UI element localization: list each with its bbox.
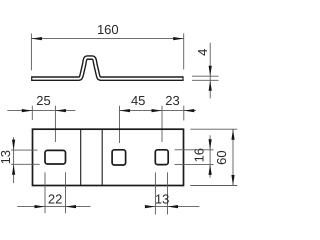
dim 4 dimension line: [209, 43, 211, 99]
dim 22 arrow left: [35, 205, 46, 208]
slot 1 (left oblong): [45, 150, 66, 164]
dim 23 extension line at plate right: [183, 106, 185, 121]
dim 60 dimension line: [232, 129, 234, 185]
plate bend line left: [80, 129, 82, 185]
dim 25 extension line at slot1 center: [54, 106, 56, 142]
plate outline: [33, 129, 184, 185]
svg-text:22: 22: [48, 192, 62, 207]
dim 22 arrow right: [66, 205, 77, 208]
dim 60 arrow upper: [231, 129, 234, 140]
dim 25 dimension line: [7, 110, 75, 112]
svg-text:23: 23: [165, 93, 179, 108]
dim 45/23 dimension line: [120, 110, 197, 112]
svg-text:160: 160: [97, 22, 119, 37]
dim 22 dimension line: [17, 206, 90, 208]
dim 13 left extension line lower: [11, 163, 40, 165]
dim 160 dimension line: [31, 38, 183, 40]
dim 160 extension line left: [30, 34, 32, 71]
plate bend line right: [101, 129, 103, 185]
dim 22 extension line right: [65, 172, 67, 213]
dim 60 arrow lower: [231, 175, 234, 186]
svg-text:60: 60: [214, 150, 229, 164]
dim 4 extension line top: [192, 75, 219, 77]
dim 160 arrow right: [173, 37, 184, 40]
dim 60 extension line upper: [190, 128, 237, 130]
dim 60 extension line lower: [190, 185, 237, 187]
dim 45 extension line at slot2 center: [119, 106, 121, 143]
dim 16 extension line upper: [175, 149, 214, 151]
svg-text:4: 4: [195, 49, 210, 56]
slot 3 (right): [155, 150, 168, 165]
dim 160 extension line right: [183, 33, 185, 69]
dim 25 arrow left: [22, 109, 33, 112]
dim 25 arrow right: [55, 109, 66, 112]
dim 16 arrow upper: [209, 139, 212, 150]
dim 13 bottom extension line right: [167, 172, 169, 214]
dim 13 bottom extension line left: [154, 172, 156, 214]
dim 16 extension line lower: [175, 163, 214, 165]
dim 13 bottom arrow right: [168, 205, 179, 208]
profile strip inner white core: [32, 58, 182, 79]
dim 13 left extension line upper: [11, 149, 38, 151]
dim 13 left arrow lower: [12, 164, 15, 175]
svg-text:13: 13: [155, 191, 169, 206]
dim 25 extension line at plate left: [31, 106, 33, 120]
dim 13 bottom dimension line: [146, 206, 200, 208]
svg-text:13: 13: [0, 150, 13, 164]
slot 2 (middle): [112, 150, 126, 165]
dim 4 arrow lower: [209, 80, 212, 91]
dim 13 left dimension line: [13, 137, 15, 183]
dim 4 arrow upper: [209, 66, 212, 77]
dim 16 dimension line: [209, 135, 211, 177]
dim 23 arrow right: [184, 109, 195, 112]
dim 13 bottom arrow left: [145, 205, 156, 208]
svg-text:25: 25: [36, 93, 50, 108]
svg-text:45: 45: [131, 93, 145, 108]
dim 45 arrow left: [120, 109, 131, 112]
dim 4 extension line bottom: [192, 79, 219, 81]
dim 45 arrow right: [152, 109, 163, 112]
dim 22 extension line left: [44, 172, 46, 213]
svg-text:16: 16: [192, 148, 207, 162]
dim 160 arrow left: [31, 37, 42, 40]
profile strip with hump (outer dark): [31, 58, 184, 79]
dim 13 left arrow upper: [12, 140, 15, 151]
dim 45/23 extension line at slot3 center: [161, 106, 163, 142]
dim 16 arrow lower: [209, 164, 212, 175]
